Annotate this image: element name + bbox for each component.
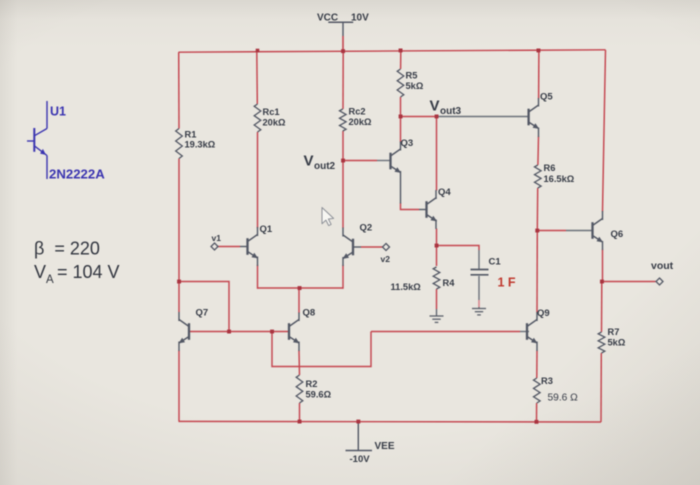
svg-text:v2: v2 (381, 254, 391, 264)
wire Q8 collector up to emitter rail (298, 288, 300, 313)
node R3 bottom junction (535, 420, 539, 424)
label Q8 (303, 308, 316, 319)
wire Vout2 node to Q2 collector (342, 161, 344, 229)
wire Q8 emitter to R2 (298, 351, 301, 376)
svg-text:16.5kΩ: 16.5kΩ (544, 174, 575, 184)
resistor R3 (534, 378, 541, 403)
svg-text:V: V (304, 153, 314, 170)
wire Q9 emitter to R3 (536, 351, 538, 379)
wire left column mid (178, 159, 180, 313)
label U1 (50, 105, 66, 119)
node R2 bottom junction (298, 420, 302, 424)
wire bottom rail (179, 420, 602, 423)
transistor U1 symbol (blue) (27, 101, 47, 179)
node R6/Q6 base junction (535, 229, 539, 233)
svg-text:R1: R1 (185, 129, 197, 139)
svg-text:59.6Ω: 59.6Ω (306, 389, 332, 399)
svg-text:VCC: VCC (317, 12, 338, 23)
svg-text:Q9: Q9 (537, 308, 550, 319)
resistor R2 (296, 375, 303, 403)
source terminal v1 (211, 243, 218, 250)
svg-text:19.3kΩ: 19.3kΩ (185, 140, 216, 150)
transistor Q7 (178, 312, 189, 351)
node Q5 collector top junction (537, 49, 541, 53)
svg-text:Q7: Q7 (196, 308, 209, 319)
wire R2 bottom lead (299, 403, 301, 422)
node R5 top junction (399, 49, 403, 53)
node Rc1 top junction (256, 49, 260, 53)
wire Q7 collector loop to base rail (179, 282, 229, 332)
svg-text:C1: C1 (489, 257, 502, 268)
svg-text:Rc1: Rc1 (263, 107, 280, 117)
resistor R5 (397, 69, 404, 97)
wire Q1-Q2 emitter rail (258, 287, 344, 289)
label Q9 (537, 308, 550, 319)
wire C1 bottom lead (pink) (478, 276, 480, 307)
label C1 (489, 257, 516, 290)
node vout junction (600, 280, 604, 284)
label R2 (306, 379, 332, 399)
svg-text:V: V (34, 262, 46, 282)
label R5 (406, 71, 424, 91)
svg-text:R4: R4 (443, 278, 456, 288)
svg-text:11.5kΩ: 11.5kΩ (391, 282, 422, 292)
capacitor C1 (471, 270, 489, 275)
label Q6 (611, 229, 624, 240)
svg-text:v1: v1 (212, 233, 222, 243)
wire R6 to node (536, 188, 538, 231)
node VCC-rail junction (341, 49, 345, 53)
wire R4 bottom lead (436, 289, 438, 309)
wire R6 node to Q6 base (537, 230, 593, 232)
label -10V (350, 454, 371, 465)
svg-text:Q8: Q8 (303, 308, 316, 319)
resistor R1 (176, 129, 183, 159)
resistor R6 (535, 165, 542, 188)
wire Q3 emitter to Q4 base (401, 203, 420, 210)
svg-text:VEE: VEE (375, 441, 395, 452)
svg-text:59.6 Ω: 59.6 Ω (548, 393, 579, 404)
ground under R4 (430, 309, 444, 322)
svg-text:out2: out2 (314, 161, 336, 172)
label Q3 (401, 138, 414, 149)
resistor Rc2 (340, 109, 347, 131)
wire Vout3 node down to Q4 collector (436, 117, 438, 191)
svg-text:Q6: Q6 (611, 229, 624, 240)
transistor Q8 (289, 313, 300, 352)
node Vout2 (341, 159, 345, 163)
label v1 (212, 233, 222, 243)
label Rc2 (349, 107, 373, 127)
label 2N2222A (49, 167, 105, 182)
label Vout3 (430, 98, 462, 118)
transistor Q6 (593, 211, 604, 250)
node Q4 emitter junction (435, 244, 439, 248)
node Q7 collector junction (177, 280, 181, 284)
svg-text:20kΩ: 20kΩ (263, 117, 287, 127)
svg-text:R7: R7 (608, 327, 620, 337)
wire Q5 collector top (538, 50, 540, 98)
svg-text:β = 220: β = 220 (34, 239, 100, 259)
label R6 (544, 163, 575, 184)
label Q5 (540, 92, 553, 103)
wire R7 to bottom rail (600, 353, 602, 422)
label Q1 (260, 224, 273, 235)
svg-text:out3: out3 (440, 106, 462, 117)
transistor Q3 (391, 142, 402, 204)
wire Q1 emitter down (257, 265, 259, 289)
node Q8 collector junction (298, 286, 302, 290)
wire top VCC rail (179, 50, 606, 52)
ground under C1 (472, 307, 486, 315)
wire Q6 emitter to vout node (602, 250, 604, 282)
node base rail junction 2 (270, 330, 274, 334)
svg-text:5kΩ: 5kΩ (406, 81, 424, 91)
svg-text:U1: U1 (50, 105, 66, 119)
resistor R4 (433, 267, 440, 289)
label VEE (375, 441, 395, 452)
transistor Q5 (529, 98, 540, 137)
svg-text:Q5: Q5 (540, 92, 553, 103)
svg-text:Q3: Q3 (401, 138, 414, 149)
resistor Rc1 (254, 104, 261, 132)
output terminal vout (656, 278, 663, 285)
wire left column top lead (178, 52, 180, 128)
svg-text:= 104 V: = 104 V (57, 262, 120, 282)
label Rc1 (263, 107, 287, 127)
transistor Q2 (342, 228, 361, 267)
transistor Q1 (240, 227, 258, 266)
svg-text:R6: R6 (544, 163, 556, 173)
wire right column top (603, 50, 606, 212)
label R4 (391, 278, 456, 292)
VEE power symbol (346, 422, 373, 451)
svg-text:A: A (46, 274, 54, 286)
node R5/Vout3 left junction (399, 115, 403, 119)
node Vout3 (435, 115, 439, 119)
annotation beta = 220 (34, 239, 100, 259)
svg-text:Rc2: Rc2 (349, 107, 366, 117)
label Q7 (196, 308, 209, 319)
label Q4 (438, 187, 451, 198)
wire v1 to Q1 base (218, 246, 240, 248)
wire vout node to terminal (602, 281, 656, 283)
node base rail junction 1 (227, 330, 231, 334)
source terminal v2 (383, 244, 390, 251)
wire Q7 emitter to bottom rail (178, 351, 180, 422)
svg-text:vout: vout (651, 260, 674, 272)
transistor Q4 (419, 190, 437, 229)
svg-text:R2: R2 (306, 379, 318, 389)
wire vout node to R7 (601, 282, 603, 333)
label VCC 10V (317, 12, 369, 23)
svg-text:2N2222A: 2N2222A (49, 167, 105, 182)
wire Q4 emitter to node (436, 229, 438, 246)
label v2 (381, 254, 391, 264)
wire Q8 base loop around (272, 332, 371, 367)
svg-text:20kΩ: 20kΩ (349, 117, 373, 127)
mouse cursor (322, 208, 334, 226)
svg-text:Q2: Q2 (360, 223, 373, 234)
wire Rc1 to Q1 collector (257, 132, 259, 228)
svg-text:V: V (430, 98, 440, 115)
svg-text:10V: 10V (351, 12, 369, 23)
wire node to C1 top (437, 246, 480, 270)
transistor Q9 (527, 312, 538, 351)
wire R3 bottom lead (536, 403, 538, 422)
wire base rail to Q9 base (371, 331, 529, 333)
wire Rc1 top lead (256, 52, 259, 104)
wire R5 top lead (400, 51, 402, 69)
wire Q2 emitter down (342, 265, 344, 289)
VCC power symbol (328, 22, 353, 51)
wire v2 to Q2 base (361, 246, 383, 248)
svg-text:Q1: Q1 (260, 224, 273, 235)
label Q2 (360, 223, 373, 234)
svg-text:R5: R5 (406, 71, 418, 81)
wire Q7-Q8 base rail (189, 331, 289, 333)
wire Q5 emitter to R6 (537, 137, 540, 166)
label R1 (185, 129, 216, 149)
label R3 (541, 376, 578, 404)
annotation VA = 104 V (34, 262, 120, 286)
wire node to Q9 collector (536, 231, 538, 313)
label R7 (608, 327, 626, 348)
wire Vout3 node to Q3 collector (400, 117, 402, 143)
svg-text:5kΩ: 5kΩ (608, 338, 626, 348)
svg-text:R3: R3 (541, 376, 553, 386)
wire node to R4 top (436, 246, 438, 267)
wire R5 to Vout3 node (400, 97, 402, 117)
wire Rc2 top lead (342, 51, 344, 109)
label Vout2 (304, 153, 336, 173)
svg-text:1 F: 1 F (498, 276, 516, 290)
wire Rc2 to Vout2 node (342, 131, 344, 161)
svg-text:-10V: -10V (350, 454, 371, 465)
node VEE junction (356, 420, 360, 424)
wire R5 node to Vout3 node (401, 116, 437, 118)
resistor R7 (598, 332, 605, 353)
wire Vout3 node to Q5 base (gray) (437, 116, 530, 118)
svg-text:Q4: Q4 (438, 187, 451, 198)
label vout (651, 260, 674, 272)
wire Vout2 to Q3 base (343, 160, 392, 162)
